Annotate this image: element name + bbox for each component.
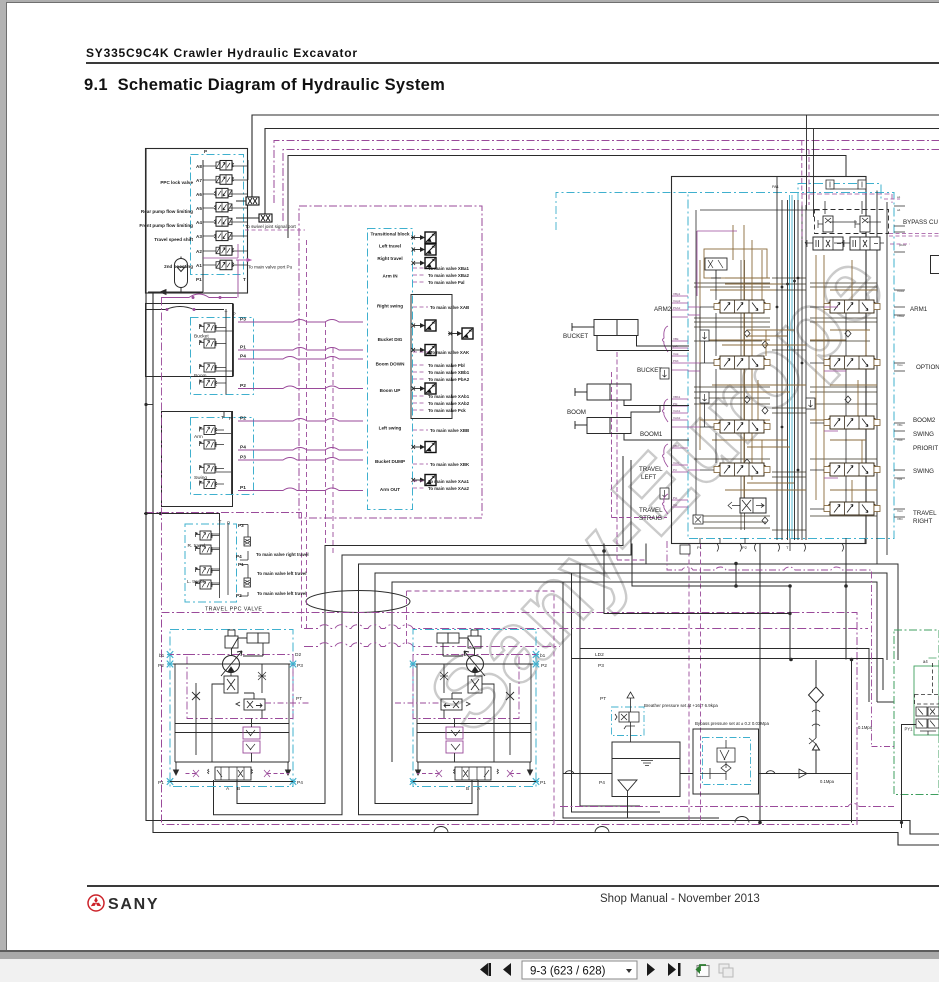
svg-text:P2: P2	[240, 383, 246, 389]
svg-text:P2: P2	[240, 416, 246, 422]
svg-text:LD2: LD2	[595, 652, 604, 658]
svg-text:To main valve XAa1: To main valve XAa1	[428, 479, 469, 484]
green pilot filter box	[894, 630, 939, 795]
center cyan verticals	[790, 195, 793, 538]
svg-text:b1: b1	[540, 653, 546, 659]
block frame	[146, 149, 248, 294]
svg-text:To swivel joint signal port: To swivel joint signal port	[245, 224, 297, 229]
cyan sub-box top	[798, 184, 881, 202]
svg-text:Arm OUT: Arm OUT	[380, 487, 400, 492]
wire: verticals mid going under tank	[580, 564, 640, 806]
bus vertical P1	[202, 160, 204, 292]
T P stems for ppc blocks	[224, 304, 234, 495]
purple link down from block	[203, 244, 238, 258]
svg-text:To main valve XAK: To main valve XAK	[430, 350, 470, 355]
port labels A8..A1	[196, 149, 246, 282]
svg-text:Boom UP: Boom UP	[380, 388, 401, 393]
svg-text:ARM1: ARM1	[910, 306, 928, 313]
main control valve block	[556, 115, 939, 564]
svg-text:P2: P2	[742, 545, 748, 550]
svg-text:TRAVEL: TRAVEL	[639, 466, 663, 473]
olive pilot rect	[704, 249, 767, 278]
svg-text:To main valve left travel: To main valve left travel	[257, 571, 306, 576]
svg-text:To main valve right travel: To main valve right travel	[256, 552, 309, 557]
anti-drift valve cluster	[693, 515, 703, 524]
svg-text:Swing: Swing	[194, 475, 207, 481]
black collector rect	[411, 295, 452, 419]
internal gallery lines left column	[694, 260, 877, 530]
svg-text:PT: PT	[296, 696, 302, 702]
solenoid valve block	[139, 149, 305, 300]
wire: black horizontal above travel ppc	[144, 514, 220, 521]
tank output line	[563, 773, 693, 775]
svg-text:P: P	[233, 312, 236, 318]
svg-text:P4: P4	[240, 354, 246, 360]
check valve on tank line	[799, 769, 807, 778]
svg-text:XAtr: XAtr	[897, 509, 903, 513]
outer frame	[672, 177, 867, 544]
svg-text:XAb2: XAb2	[673, 416, 681, 420]
function labels	[139, 180, 193, 269]
wire: vertical x646 from main valve bottom	[645, 544, 647, 565]
svg-text:XBb1: XBb1	[673, 395, 681, 399]
svg-text:PbK: PbK	[673, 359, 679, 363]
svg-text:A6: A6	[196, 192, 202, 197]
wire: bundle line 1	[237, 456, 623, 804]
wire: bundle line 4	[375, 573, 887, 804]
check valve diamonds	[744, 330, 851, 524]
breather valve box	[612, 707, 645, 736]
svg-text:XBs: XBs	[897, 423, 903, 427]
svg-text:P3: P3	[598, 663, 604, 669]
SANY logo emblem	[86, 892, 176, 914]
svg-text:Rear pump flow limiting: Rear pump flow limiting	[141, 209, 193, 214]
svg-text:PbA2: PbA2	[673, 306, 681, 310]
svg-text:P4: P4	[599, 780, 605, 786]
filter column	[815, 660, 817, 687]
to main valve port Pu	[236, 259, 251, 262]
pilot valve cluster in green box	[916, 707, 939, 735]
next page	[647, 963, 655, 976]
svg-text:Xst: Xst	[673, 503, 678, 507]
svg-text:To main valve XBB: To main valve XBB	[430, 428, 469, 433]
cyan dash-dot frame	[688, 193, 894, 539]
pump assembly 1 (front)	[167, 630, 296, 787]
svg-text:P1: P1	[196, 277, 202, 282]
black dashed box around bypass valves	[815, 210, 889, 234]
right edge ticks	[894, 206, 905, 517]
PT purple dash links	[265, 702, 441, 704]
wire: top purple dash-dot line 2	[283, 150, 939, 222]
next view icon (disabled)	[719, 964, 733, 977]
previous view icon	[696, 965, 710, 977]
svg-text:Right travel: Right travel	[377, 256, 402, 261]
svg-text:Transitional block: Transitional block	[370, 232, 410, 237]
page combo	[522, 961, 637, 979]
valve stems	[203, 160, 248, 265]
svg-text:P4: P4	[236, 554, 242, 559]
travel ppc block	[185, 524, 237, 602]
wire: x877 into green box	[877, 701, 894, 703]
svg-text:9-3 (623 / 628): 9-3 (623 / 628)	[530, 966, 606, 978]
curved purple with dots under block	[161, 294, 237, 298]
suction strainer	[618, 780, 637, 797]
svg-text:LEFT: LEFT	[641, 474, 656, 481]
svg-text:SWING: SWING	[913, 431, 934, 438]
wire: black supply line to main valve	[288, 156, 846, 239]
lock valve mid cluster	[526, 532, 528, 534]
bucket cylinder	[572, 320, 689, 351]
olive verticals	[700, 225, 877, 510]
arm/swing ppc block frame	[162, 412, 233, 507]
svg-text:Arm: Arm	[194, 434, 203, 440]
watermark Sany-Europe	[407, 230, 905, 752]
quick coupling to swivel joint 1	[246, 197, 259, 205]
svg-text:A7: A7	[196, 178, 202, 183]
svg-text:XAk: XAk	[673, 352, 679, 356]
purple vertical on left of ppc blocks	[161, 298, 163, 613]
left edge purple pilot ticks	[672, 296, 688, 507]
svg-text:Bucket DIG: Bucket DIG	[378, 337, 403, 342]
small box cut at right page edge	[931, 256, 939, 274]
svg-text:P1: P1	[697, 545, 703, 550]
wire: bundle line 2	[214, 460, 632, 815]
wire: bundle line 3	[359, 564, 899, 815]
P wavy purple lines from bucket/boom	[238, 320, 363, 491]
svg-text:pilots: pilots	[899, 243, 907, 247]
tiny port name texts left edge	[673, 292, 681, 507]
svg-text:P1: P1	[158, 780, 164, 786]
wire: left bus outer	[146, 149, 939, 835]
svg-text:To main valve XAB: To main valve XAB	[430, 305, 469, 310]
bottom tank and valves	[434, 630, 939, 833]
bypass spool right	[842, 237, 880, 250]
purple braces at block left	[663, 326, 669, 514]
svg-text:Pst: Pst	[673, 496, 678, 500]
wire: tank return from valve T port	[759, 544, 761, 823]
hydraulic tank	[612, 742, 680, 797]
svg-text:PY1: PY1	[905, 727, 914, 732]
svg-text:P: P	[227, 521, 230, 527]
svg-text:P2: P2	[236, 593, 242, 598]
svg-text:P3: P3	[240, 455, 246, 461]
svg-text:To main valve Pal: To main valve Pal	[428, 280, 465, 285]
travel internal wires	[212, 520, 248, 598]
svg-text:PPC lock valve: PPC lock valve	[160, 180, 193, 185]
svg-text:To main valve XAb2: To main valve XAb2	[428, 401, 470, 406]
bucket/boom cyan box	[191, 318, 254, 395]
svg-text:To main valve PbA2: To main valve PbA2	[428, 377, 470, 382]
wire: drain gallery under valve	[604, 544, 790, 614]
svg-text:To main valve port Pu: To main valve port Pu	[248, 265, 293, 270]
center vertical bundle black	[777, 177, 806, 541]
wire: top black line 2	[265, 129, 939, 216]
toolbar	[0, 959, 939, 982]
svg-text:A4: A4	[196, 220, 202, 225]
svg-text:XBa2: XBa2	[897, 314, 905, 318]
solenoid valves A8-A1	[216, 161, 234, 171]
purple pilot drop pair near cylinders	[612, 352, 668, 560]
purple lines inside block	[688, 231, 846, 478]
svg-text:To main valve XBa1: To main valve XBa1	[428, 266, 469, 271]
svg-text:T: T	[219, 519, 222, 525]
wire: top purple dash-dot line 1	[274, 141, 939, 204]
svg-text:PT: PT	[600, 696, 606, 702]
svg-text:To main valve XBK: To main valve XBK	[430, 462, 470, 467]
svg-text:ARM2: ARM2	[654, 306, 672, 313]
svg-text:P1: P1	[540, 780, 546, 786]
tmv valve symbols	[412, 232, 437, 243]
svg-text:PA1: PA1	[772, 185, 779, 189]
section heading	[84, 76, 445, 95]
header title	[86, 46, 358, 60]
purple dash-dot rect around signal column	[299, 206, 482, 518]
bypass cut valve left	[818, 216, 833, 232]
pilot stubs under block	[717, 544, 844, 552]
pump assembly 2 (rear, mirrored)	[410, 630, 539, 787]
to-main-valve signal column	[299, 206, 482, 518]
breather connection to pump bus	[627, 797, 629, 819]
pilot valve top-left cluster	[705, 258, 727, 278]
svg-text:B: B	[466, 786, 469, 792]
feed drops from top lines into block	[807, 115, 814, 217]
bottom ports of block	[700, 538, 865, 564]
svg-text:A1: A1	[196, 263, 202, 268]
svg-text:T: T	[786, 545, 789, 550]
svg-text:BUCKET: BUCKET	[637, 367, 662, 374]
svg-text:TRAVEL PPC VALVE: TRAVEL PPC VALVE	[205, 607, 262, 613]
svg-text:Breather pressure set at +16.: Breather pressure set at +16.7 6.9kpa	[644, 703, 718, 708]
svg-text:Xps: Xps	[897, 477, 903, 481]
bottom chrome	[0, 950, 939, 952]
svg-text:STRAIG: STRAIG	[639, 515, 662, 522]
first page button	[480, 963, 491, 976]
svg-text:PRIORIT: PRIORIT	[913, 445, 938, 452]
OPTION spool	[824, 356, 880, 369]
svg-text:Left travel: Left travel	[379, 244, 401, 249]
svg-text:XAa1: XAa1	[897, 289, 905, 293]
svg-text:OPTION: OPTION	[916, 364, 939, 371]
svg-text:A5: A5	[196, 206, 202, 211]
svg-text:A8: A8	[196, 164, 202, 169]
svg-text:P2: P2	[158, 663, 164, 669]
wire: bundle line 5	[392, 582, 877, 762]
wire: purple pilot PY1 route	[667, 541, 872, 747]
left bus links	[146, 307, 224, 405]
svg-text:XAs: XAs	[897, 438, 903, 442]
to main valve labels	[428, 266, 470, 491]
svg-text:RIGHT: RIGHT	[913, 518, 932, 525]
svg-text:XAp2: XAp2	[673, 299, 681, 303]
bypass spool left	[805, 237, 843, 250]
footer rule	[87, 885, 939, 887]
bypass cut valve right	[855, 216, 870, 232]
svg-text:Boom DOWN: Boom DOWN	[376, 362, 406, 367]
svg-text:XAb1: XAb1	[673, 409, 681, 413]
bundle junction dots	[776, 277, 804, 472]
svg-text:BOOM2: BOOM2	[913, 417, 936, 424]
tiny port name texts right edge	[897, 195, 907, 521]
svg-text:To main valve XAa2: To main valve XAa2	[428, 486, 469, 491]
svg-text:To main valve XBa2: To main valve XBa2	[428, 273, 469, 278]
top purple dash in bypass area	[802, 194, 892, 240]
svg-text:BYPASS CU: BYPASS CU	[903, 219, 938, 226]
svg-text:T: T	[243, 277, 246, 282]
svg-text:TRAVEL: TRAVEL	[639, 507, 663, 514]
svg-text:P: P	[204, 149, 207, 154]
svg-text:P4: P4	[240, 445, 246, 451]
BUCKET spool	[714, 356, 770, 369]
svg-text:Bypass pressure set at ± 0.2: Bypass pressure set at ± 0.2 0.03Mpa	[695, 721, 769, 726]
svg-text:P3: P3	[238, 523, 244, 528]
cyan pilot line into block	[556, 193, 688, 231]
pump labels	[158, 652, 606, 792]
SWING spool	[824, 463, 880, 476]
BOOM2 spool	[824, 416, 880, 429]
svg-text:0.1Mpa: 0.1Mpa	[858, 725, 873, 730]
quick coupling to swivel joint 2	[259, 214, 272, 222]
travel straight valve	[728, 498, 766, 513]
hose bundle ellipse	[306, 591, 410, 613]
cyan dashed rect	[368, 229, 413, 510]
svg-text:Travel speed shift: Travel speed shift	[154, 237, 193, 242]
wire: left bus inner	[153, 293, 939, 845]
green solenoid block frame	[914, 666, 939, 735]
svg-text:XAtl: XAtl	[673, 461, 679, 465]
viewer chrome: left gray strip	[0, 0, 6, 951]
svg-text:P1: P1	[240, 485, 246, 491]
wire: purple drain pair from valve bottom	[689, 544, 701, 825]
bucket ppc valves	[200, 323, 217, 332]
wire: bottom purple dash-dot enclosure	[162, 613, 858, 825]
svg-text:Boom: Boom	[194, 373, 207, 379]
svg-text:Bucket: Bucket	[194, 334, 209, 340]
svg-text:Front pump flow limiting: Front pump flow limiting	[139, 223, 193, 228]
wire: purple bus rows above pumps (with hose humps)	[304, 625, 868, 629]
cyan dashed box	[191, 155, 244, 275]
PPC pilot valve blocks	[146, 298, 364, 613]
svg-text:P1: P1	[240, 345, 246, 351]
priority small valves	[700, 330, 709, 341]
svg-text:b1: b1	[159, 653, 165, 659]
svg-text:Right swing: Right swing	[377, 304, 403, 309]
internal connection lines	[693, 189, 884, 515]
svg-text:R. travel: R. travel	[188, 543, 206, 549]
boom cylinders	[575, 384, 689, 440]
wire: junction horizontals bottom right	[580, 649, 869, 703]
svg-text:To main valve Pck: To main valve Pck	[428, 408, 466, 413]
TRAVEL RIGHT spool	[824, 502, 880, 515]
svg-text:Bucket DUMP: Bucket DUMP	[375, 459, 405, 464]
svg-text:To main valve XBb1: To main valve XBb1	[428, 370, 470, 375]
svg-text:XBk: XBk	[673, 337, 679, 341]
svg-text:P3: P3	[240, 317, 246, 323]
svg-text:0.1Mpa: 0.1Mpa	[820, 779, 835, 784]
wire: top black line 1 to swivel joint	[252, 115, 939, 198]
header rule	[86, 62, 939, 64]
TRAVEL LEFT spool	[714, 463, 770, 476]
svg-text:a4: a4	[923, 659, 928, 664]
svg-text:BUCKET: BUCKET	[563, 333, 588, 340]
bypass valve box	[693, 729, 759, 794]
row labels	[370, 232, 410, 493]
ARM1 spool	[824, 300, 880, 313]
wire hops on bottom lines	[735, 817, 749, 823]
accumulator	[175, 257, 188, 293]
PY1 supply from tank line	[902, 725, 917, 829]
svg-text:P3: P3	[297, 663, 303, 669]
ARM2 spool	[714, 300, 770, 313]
bucket/boom ppc block frame	[146, 304, 233, 377]
purple dash-dot return right section	[560, 803, 894, 806]
svg-text:To main valve left travel: To main valve left travel	[257, 591, 306, 596]
footer center text	[600, 893, 760, 905]
svg-text:XBp1: XBp1	[673, 292, 681, 296]
svg-text:D2: D2	[295, 652, 301, 658]
svg-text:Arm IN: Arm IN	[382, 274, 398, 279]
svg-text:a1: a1	[897, 195, 901, 199]
svg-text:BOOM: BOOM	[567, 409, 586, 416]
right side supply verticals	[877, 191, 887, 564]
purple dashed stubs for labels	[413, 268, 428, 488]
wire: purple dash-dot horizontal to travel ppc	[146, 512, 302, 514]
svg-text:TRAVEL: TRAVEL	[913, 510, 937, 517]
drain arrow	[148, 290, 203, 295]
svg-text:SWING: SWING	[913, 468, 934, 475]
svg-text:A2: A2	[196, 249, 202, 254]
a4 dashed feed	[915, 663, 939, 704]
svg-text:XBtl: XBtl	[673, 444, 679, 448]
svg-text:To main valve XAb1: To main valve XAb1	[428, 394, 470, 399]
svg-text:Ptl: Ptl	[673, 468, 677, 472]
svg-text:Left swing: Left swing	[379, 426, 402, 431]
svg-text:a4: a4	[897, 208, 901, 212]
block labels	[637, 219, 939, 525]
BOOM1 spool	[714, 420, 770, 433]
purple pilot into green box	[872, 746, 895, 748]
svg-text:A3: A3	[196, 234, 202, 239]
viewer chrome: top gray strip	[0, 0, 939, 2]
travel couplers	[244, 537, 251, 546]
svg-text:XBtr: XBtr	[897, 517, 903, 521]
svg-text:P4: P4	[297, 780, 303, 786]
prev page button	[503, 963, 511, 976]
black feed lines from rows to valves	[411, 237, 413, 239]
wire: purple verticals x 296-333	[301, 513, 303, 629]
wire: bundle line 6 purple	[407, 591, 555, 825]
svg-text:XAo: XAo	[897, 363, 903, 367]
svg-text:L. travel: L. travel	[187, 579, 204, 585]
svg-text:BOOM1: BOOM1	[640, 431, 663, 438]
svg-text:P2: P2	[541, 663, 547, 669]
last page	[668, 963, 676, 976]
svg-text:B: B	[237, 786, 240, 792]
boom ppc valves	[200, 363, 217, 372]
svg-text:To main valve Pbl: To main valve Pbl	[428, 363, 465, 368]
